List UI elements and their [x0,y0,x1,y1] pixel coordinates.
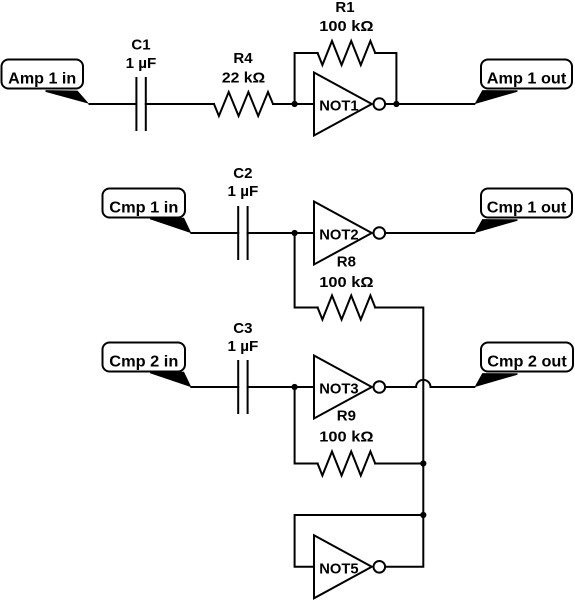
capacitor C3 [238,361,247,413]
junction node: NOT5 loop / bus [420,512,426,518]
wire: Amp1 in lead [90,103,137,105]
svg-text:100 kΩ: 100 kΩ [319,274,373,291]
wire: R4 to NOT1 input [273,103,314,105]
wire: C3 to NOT3 input [248,386,314,388]
resistor R4 [214,92,273,116]
svg-text:22 kΩ: 22 kΩ [222,70,265,87]
capacitor C1 [136,78,145,130]
svg-text:1 µF: 1 µF [228,183,259,200]
svg-text:Cmp 1 out: Cmp 1 out [487,200,567,217]
resistor R1 [318,41,376,65]
junction node: R4 / NOT1 input / R1 tap [292,101,298,107]
svg-text:Cmp 2 out: Cmp 2 out [487,354,567,371]
flag Cmp 2 in [103,343,192,388]
capacitor C2 [238,207,247,259]
svg-text:100 kΩ: 100 kΩ [319,429,373,446]
wire: C2 to NOT2 input [248,232,314,234]
svg-text:C2: C2 [233,165,252,182]
wire: NOT3 output with hop over bus [385,380,474,387]
svg-text:NOT2: NOT2 [319,227,358,244]
wire: Cmp2 in lead [191,386,238,388]
wire: NOT1 output to Amp1 out [385,103,474,105]
svg-text:Amp 1 in: Amp 1 in [8,71,76,88]
wire: NOT2 input down to R8 [295,233,318,308]
svg-text:1 µF: 1 µF [228,338,259,355]
wire: bus R9 node to NOT5 node [422,464,424,516]
junction node: NOT1 output / R1 tap [393,101,399,107]
wire: R8 right to vertical bus [375,308,423,464]
svg-text:NOT5: NOT5 [319,560,358,577]
svg-text:C3: C3 [233,320,252,337]
svg-text:NOT1: NOT1 [319,98,358,115]
junction node: C2 / NOT2 input / R8 tap [292,230,298,236]
wire: NOT3 input down to R9 [295,387,318,464]
resistor R9 [318,452,376,476]
inverter NOT2 [314,202,385,265]
wire: C1 to R4 [146,103,214,105]
flag Cmp 2 out [475,343,574,388]
wire: NOT5 loop top [295,515,424,567]
flag Cmp 1 in [103,189,192,234]
wire: NOT2 output to Cmp1 out [385,232,474,234]
inverter NOT3 [314,356,385,419]
wire: NOT5 output up to bus [385,515,423,567]
svg-text:R4: R4 [233,50,253,67]
wire: Cmp1 in lead [191,232,238,234]
svg-text:NOT3: NOT3 [319,381,358,398]
wire: feedback left vertical R1 [295,53,318,104]
svg-text:Amp 1 out: Amp 1 out [487,71,567,88]
svg-text:C1: C1 [131,37,150,54]
inverter NOT5 [314,535,385,598]
svg-text:R9: R9 [337,408,356,425]
wire: feedback right vertical R1 [375,53,396,104]
svg-text:1 µF: 1 µF [126,55,157,72]
flag Amp 1 in [2,60,90,104]
svg-text:R8: R8 [337,254,356,271]
svg-text:Cmp 2 in: Cmp 2 in [109,354,178,371]
junction node: R9 / bus [420,460,426,466]
inverter NOT1 [314,73,385,136]
flag Cmp 1 out [475,189,573,234]
flag Amp 1 out [475,60,573,105]
junction node: C3 / NOT3 input / R9 tap [292,384,298,390]
resistor R8 [318,296,376,320]
svg-text:R1: R1 [335,0,354,16]
svg-text:Cmp 1 in: Cmp 1 in [109,200,178,217]
svg-text:100 kΩ: 100 kΩ [319,18,373,35]
wire: R9 right to vertical bus [375,463,423,465]
